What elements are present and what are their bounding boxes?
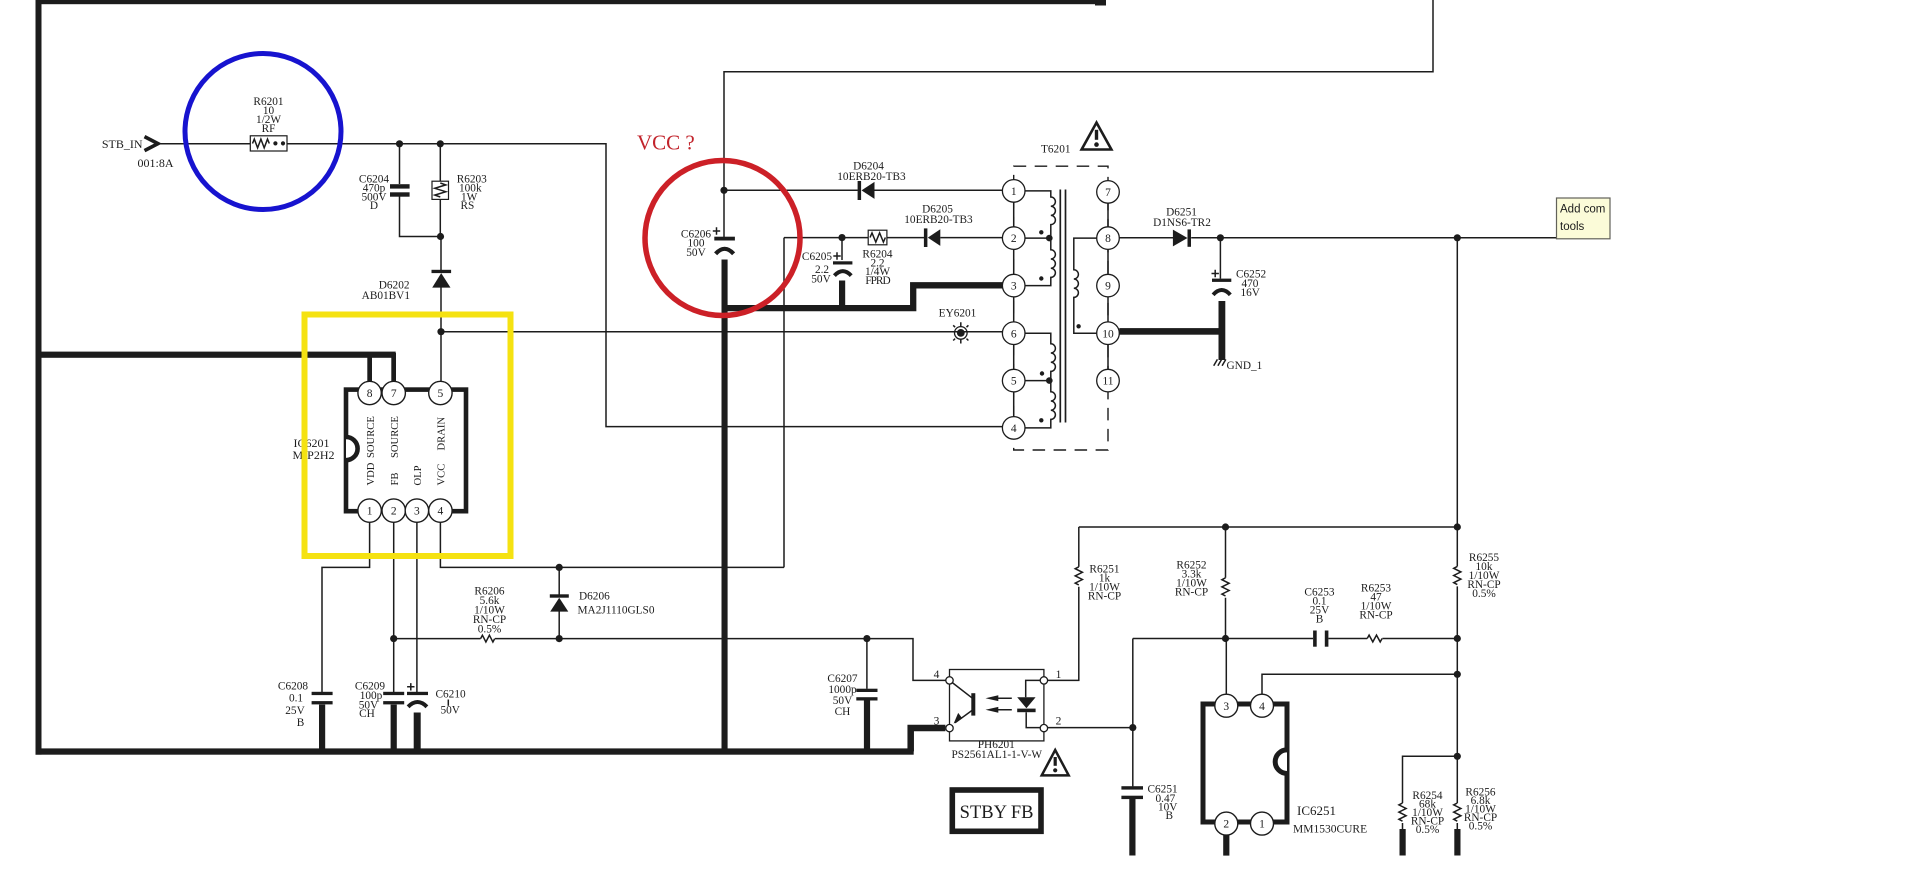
svg-text:1: 1	[1259, 819, 1265, 831]
resistor R6256 (6.8k zigzag)	[1454, 803, 1461, 821]
svg-text:FPRD: FPRD	[865, 275, 890, 287]
svg-text:DRAIN: DRAIN	[437, 417, 448, 451]
transformer tap pin 2	[1024, 237, 1051, 239]
capacitor C6207 (1000p 50V)	[856, 689, 877, 701]
svg-text:8: 8	[1105, 233, 1111, 245]
svg-text:50V: 50V	[686, 247, 706, 259]
wire: branch to R6203	[439, 144, 441, 181]
diode D6205 (10ERB20-TB3)	[924, 228, 940, 247]
resistor R6251 (1k zigzag)	[1075, 567, 1082, 585]
wire: thick wire T6201 pin 10 to C6252 ground stub	[1119, 328, 1222, 335]
svg-text:IC6251: IC6251	[1297, 803, 1336, 818]
capacitor C6253 (0.1 25V B series)	[1313, 631, 1328, 647]
svg-text:9: 9	[1105, 281, 1111, 293]
wire: IC6251 pin 3 lead up to rail	[1225, 639, 1227, 695]
diode D6251 (D1NS6-TR2)	[1173, 229, 1191, 246]
svg-text:1: 1	[1056, 669, 1062, 681]
transformer T6201 right pin column line	[1107, 192, 1109, 381]
warning triangle near T6201	[1082, 123, 1112, 150]
wire: C6207 top lead	[866, 639, 868, 689]
capacitor C6205 (2.2 50V, polarized)	[833, 252, 852, 275]
pin 7 of T6201	[1097, 181, 1120, 204]
junction node R6203 top	[437, 140, 444, 147]
annotation: blue circle around R6201	[185, 54, 341, 210]
wire: thick step from ground bus up to PH6201 pin 3	[911, 728, 946, 751]
wire: top-right thin wire from VCC node up and across	[724, 0, 1433, 190]
svg-text:MM1530CURE: MM1530CURE	[1293, 824, 1367, 836]
capacitor C6209 (100p 50V CH)	[383, 692, 404, 705]
wire: R6203 bottom to node	[439, 199, 441, 236]
svg-text:0.5%: 0.5%	[1469, 821, 1493, 833]
lead line mark for C6210 label	[447, 700, 449, 706]
diode D6204 (10ERB20-TB3)	[858, 181, 875, 200]
wire: thick stub below R6254	[1400, 829, 1406, 856]
wire: C6252 branch	[1219, 238, 1221, 279]
wire: IC6201 VCC (pin4) to lower rail to D6206 and T pin 2 drop	[440, 522, 784, 567]
annotation: sticky note "Add com tools"	[1557, 198, 1611, 239]
transformer tap pin 5	[1024, 380, 1051, 382]
svg-text:3: 3	[934, 716, 940, 728]
resistor R6203 (boxed, 100k 1W RS)	[432, 181, 449, 199]
IC IC6201 MIP2H2 body	[346, 390, 466, 512]
junction node C6252 top	[1217, 234, 1224, 241]
pin 6 of T6201	[1002, 322, 1025, 345]
pin 3 of IC6251	[1215, 694, 1238, 717]
polarity dot secondary winding	[1076, 324, 1080, 328]
transformer winding pin2-pin3	[1024, 238, 1055, 286]
optocoupler PH6201 PS2561AL1-1-V-W	[946, 670, 1048, 741]
wire: T6201 pin 2 row with R6204 and D6205	[784, 237, 1003, 239]
svg-text:RN-CP: RN-CP	[1359, 610, 1392, 622]
wire: IC6251 pin 4 lead and rail y=674.3	[1262, 674, 1457, 694]
wire: R6251 top lead	[1078, 527, 1080, 567]
svg-text:Add com: Add com	[1560, 204, 1605, 216]
svg-text:C6208: C6208	[278, 681, 308, 693]
svg-text:6: 6	[1011, 328, 1017, 340]
pin 1 of T6201	[1002, 180, 1025, 203]
svg-text:3: 3	[1011, 281, 1017, 293]
svg-text:4: 4	[438, 506, 444, 518]
wire: thick stub below R6256	[1454, 829, 1460, 856]
svg-text:RF: RF	[262, 123, 276, 135]
wire: thick stub below C6205	[839, 281, 845, 312]
svg-text:EY6201: EY6201	[939, 308, 977, 320]
svg-text:7: 7	[391, 388, 397, 400]
svg-text:D1NS6-TR2: D1NS6-TR2	[1153, 217, 1211, 229]
svg-text:8: 8	[367, 388, 373, 400]
wire: D6206 bottom lead	[558, 612, 560, 639]
junction node DRAIN / EY6201 row	[437, 328, 444, 335]
junction node right bus top	[1454, 234, 1461, 241]
svg-text:STBY FB: STBY FB	[960, 803, 1034, 823]
wire: schematic page border left (thick)	[36, 0, 42, 755]
diode D6206 (MA2J1110GLS0)	[550, 594, 569, 611]
pin 11 of T6201	[1097, 369, 1120, 392]
pin 1 of IC6251	[1251, 812, 1274, 835]
annotation: yellow rectangle around IC6201	[305, 315, 511, 557]
svg-text:4: 4	[934, 669, 940, 681]
wire: right vertical bus with R6255 and R6256	[1456, 238, 1458, 830]
wire: C6251 top lead	[1132, 728, 1134, 787]
svg-text:CH: CH	[359, 708, 375, 720]
svg-text:11: 11	[1102, 376, 1113, 388]
pin 3 of T6201	[1002, 274, 1025, 297]
svg-text:0.5%: 0.5%	[1416, 824, 1440, 836]
polarity dot winding 2	[1039, 276, 1043, 280]
svg-text:0.1: 0.1	[289, 693, 303, 705]
pin 4 of IC6251	[1251, 694, 1274, 717]
polarity dot winding 3	[1040, 371, 1044, 375]
svg-text:5: 5	[1011, 376, 1017, 388]
IC IC6251 MM1530CURE body	[1203, 704, 1287, 822]
wire: thick stub below C6251	[1129, 799, 1135, 856]
svg-text:C6210: C6210	[436, 689, 466, 701]
svg-text:2: 2	[391, 506, 397, 518]
junction node right bus / R6254 branch	[1454, 753, 1461, 760]
wire: D6202 to junction to IC6201 pin 5 (DRAIN)	[440, 288, 442, 382]
capacitor C6210 (50V, polarized)	[407, 683, 428, 707]
pin 4 of IC6201	[429, 499, 452, 522]
wire: thick stub below C6208	[319, 705, 325, 750]
svg-text:B: B	[1166, 810, 1174, 822]
capacitor C6251 (0.47 10V B)	[1121, 786, 1143, 799]
wire: thick stub below IC6251 pin 2	[1223, 835, 1229, 856]
transformer T6201 left pin column line	[1013, 191, 1015, 428]
pin 8 of T6201	[1097, 227, 1120, 250]
svg-text:AB01BV1: AB01BV1	[362, 290, 410, 302]
svg-text:RN-CP: RN-CP	[1088, 591, 1121, 603]
pin 5 of IC6201	[429, 381, 452, 404]
wire: riser bus to IC6201 pin 8	[367, 353, 372, 382]
junction: winding tap pin 2	[1046, 235, 1053, 242]
annotation: red circle around C6206	[645, 161, 800, 316]
wire: thick stub below C6210	[414, 713, 421, 750]
capacitor C6208 (0.1 25V B)	[312, 692, 333, 705]
wire: C6205 branch	[841, 238, 843, 260]
wire: branch to R6254	[1403, 756, 1458, 803]
resistor R6204 (boxed, 2.2 1/4W)	[868, 230, 887, 245]
junction node D6206 bottom	[556, 635, 563, 642]
transformer winding pin6-pin5	[1024, 333, 1055, 380]
ground GND_1 hatch symbol	[1214, 359, 1226, 365]
spark gap EY6201	[953, 322, 968, 343]
wire: R6251 bottom lead to PH6201 pin 1	[1047, 587, 1078, 681]
svg-text:4: 4	[1011, 423, 1017, 435]
wire: STB_IN node R6201 to corner to T6201 pin 4	[158, 144, 1003, 427]
wire: EY6201 row from DRAIN node to T6201 pin 6	[441, 331, 1003, 333]
STBY FB label box	[952, 790, 1041, 831]
svg-text:CH: CH	[835, 706, 851, 718]
capacitor C6206 (100 50V, polarized)	[713, 227, 735, 254]
transformer winding pin5-pin4	[1024, 381, 1055, 428]
svg-text:STB_IN: STB_IN	[102, 137, 143, 151]
wire: C6204 bottom jog to R6203 bottom node	[400, 195, 441, 237]
wire: thick stub below C6206 down to ground bus	[722, 260, 728, 752]
svg-text:GND_1: GND_1	[1227, 360, 1263, 372]
junction node R6252 bottom rail	[1222, 635, 1229, 642]
polarity dot winding 4	[1039, 418, 1043, 422]
svg-text:001:8A: 001:8A	[138, 156, 174, 170]
junction node right bus / upper rail	[1454, 523, 1461, 530]
pin 1 of IC6201	[358, 499, 381, 522]
svg-text:RS: RS	[461, 200, 475, 212]
junction node right bus / IC6251 pin4 rail	[1454, 671, 1461, 678]
pin 2 of T6201	[1002, 227, 1025, 250]
svg-text:MA2J1110GLS0: MA2J1110GLS0	[578, 605, 655, 617]
wire: riser bus to IC6201 pin 7	[391, 353, 396, 382]
pin 7 of IC6201	[382, 381, 405, 404]
resistor R6201 (boxed fusible, 10 1/2W RF)	[250, 136, 287, 151]
junction node R6252 top	[1222, 523, 1229, 530]
svg-text:PS2561AL1-1-V-W: PS2561AL1-1-V-W	[952, 749, 1043, 761]
wire: thick stub below C6207	[864, 700, 870, 749]
junction node right bus / middle rail	[1454, 635, 1461, 642]
junction node C6204 top	[396, 140, 403, 147]
wire: VCC node down to C6206	[723, 190, 725, 237]
svg-text:B: B	[1316, 614, 1324, 626]
svg-text:tools: tools	[1560, 221, 1585, 233]
svg-text:D: D	[370, 200, 378, 212]
svg-text:2: 2	[1056, 716, 1062, 728]
svg-text:4: 4	[1259, 701, 1265, 713]
wire: T6201 pin 2 down to VCC/FB lower rail	[783, 238, 785, 568]
svg-text:5: 5	[438, 388, 444, 400]
pin 4 of T6201	[1002, 417, 1025, 440]
svg-text:3: 3	[414, 506, 420, 518]
svg-text:D6206: D6206	[579, 591, 610, 603]
wire: D6206 top lead	[558, 567, 560, 594]
junction node D6206 top	[556, 564, 563, 571]
transformer secondary winding pin8-pin10	[1074, 238, 1098, 333]
junction node R6203/C6204 bottom	[437, 233, 444, 240]
wire: R6252 leads	[1225, 527, 1227, 639]
svg-text:50V: 50V	[811, 274, 831, 286]
pin 10 of T6201	[1097, 322, 1120, 345]
pin 2 of IC6251	[1215, 812, 1238, 835]
svg-text:1: 1	[1011, 186, 1017, 198]
pin 8 of IC6201	[358, 381, 381, 404]
svg-text:VCC: VCC	[437, 464, 448, 486]
wire: branch to C6204	[399, 144, 401, 184]
svg-text:16V: 16V	[1241, 287, 1261, 299]
junction node C6207 top	[863, 635, 870, 642]
svg-text:3: 3	[1223, 701, 1229, 713]
svg-text:2: 2	[1011, 233, 1017, 245]
resistor R6254 (68k zigzag)	[1399, 803, 1406, 821]
svg-text:MIP2H2: MIP2H2	[293, 448, 335, 462]
input arrow STB_IN	[145, 137, 159, 151]
svg-text:SOURCE: SOURCE	[390, 416, 401, 458]
wire: middle feedback rail y=638.5 with C6253 and R6253	[1133, 638, 1458, 640]
svg-text:SOURCE: SOURCE	[366, 416, 377, 458]
wire: node to D6202 anode	[440, 237, 442, 271]
wire: R6254 lower lead	[1402, 823, 1404, 830]
pin 2 of IC6201	[382, 499, 405, 522]
svg-text:VCC ?: VCC ?	[637, 131, 695, 155]
wire: FB rail y=638.6 with R6206 to C6207 and PH6201 pin 4	[394, 639, 946, 681]
resistor R6206 (5.6k zigzag)	[481, 635, 495, 642]
svg-text:0.5%: 0.5%	[478, 624, 502, 636]
resistor R6255 (10k zigzag)	[1454, 566, 1461, 584]
wire: thick bus to IC6201 pins 8/7	[36, 352, 396, 358]
svg-text:FB: FB	[390, 473, 401, 486]
svg-text:25V: 25V	[285, 705, 305, 717]
wire: IC6201 FB (pin2) down through node to C6209	[393, 522, 395, 692]
wire: T6201 pin 8 row through D6251 to right edge	[1119, 237, 1609, 239]
wire: ground bus bottom (thick)	[36, 748, 914, 754]
svg-text:10: 10	[1102, 328, 1114, 340]
svg-text:RN-CP: RN-CP	[1175, 587, 1208, 599]
junction: winding tap pin 5	[1046, 377, 1053, 384]
wire: PH6201 pin 2 row to C6251 node	[1047, 727, 1132, 729]
svg-text:1: 1	[367, 506, 373, 518]
capacitor C6204 (470p 500V)	[390, 184, 410, 197]
junction node C6205 top	[838, 234, 845, 241]
transformer winding pin1-pin2	[1024, 191, 1055, 238]
warning triangle near PH6201	[1042, 750, 1069, 775]
wire: rail down to PH6201 pin 2 node	[1132, 639, 1134, 728]
svg-text:C6205: C6205	[802, 251, 832, 263]
pin 3 of IC6201	[405, 499, 428, 522]
resistor R6252 (3.3k zigzag)	[1222, 578, 1229, 596]
svg-text:2: 2	[1223, 819, 1229, 831]
wire: upper feedback rail y=527	[1079, 526, 1458, 528]
pin 9 of T6201	[1097, 274, 1120, 297]
svg-text:B: B	[297, 717, 305, 729]
pin 5 of T6201	[1002, 369, 1025, 392]
capacitor C6252 (470 16V, polarized)	[1212, 270, 1232, 295]
junction node PH6201 pin 2 / C6251	[1129, 724, 1136, 731]
svg-text:10ERB20-TB3: 10ERB20-TB3	[904, 214, 973, 226]
junction node VCC top at C6206	[720, 187, 727, 194]
wire: IC6201 VDD (pin1) jog to C6208	[322, 522, 370, 692]
svg-text:7: 7	[1105, 187, 1111, 199]
wire: thick stub below C6209	[391, 705, 397, 750]
wire: thick ground stub below C6252 to GND_1	[1219, 301, 1226, 360]
wire: thick VCC rail from T6201 pin 3 (steps)	[725, 285, 1003, 308]
svg-text:VDD: VDD	[366, 462, 377, 485]
svg-text:OLP: OLP	[413, 465, 424, 485]
junction node FB rail left	[390, 635, 397, 642]
svg-text:0.5%: 0.5%	[1472, 588, 1496, 600]
transformer T6201 core lines	[1060, 190, 1065, 423]
svg-text:10ERB20-TB3: 10ERB20-TB3	[837, 171, 906, 183]
wire: VCC row to D6204 to T6201 pin 1	[724, 189, 1003, 191]
wire: IC6201 OLP (pin3) down to C6210	[416, 522, 418, 692]
wire: schematic page border top (thick)	[36, 0, 1100, 4]
transformer T6201 dashed outline	[1014, 166, 1108, 450]
diode D6202 (AB01BV1)	[432, 270, 452, 288]
resistor R6253 (47 zigzag)	[1367, 635, 1382, 642]
polarity dot winding 1	[1039, 230, 1043, 234]
wire: top border end nub	[1095, 0, 1106, 6]
svg-text:T6201: T6201	[1041, 144, 1071, 156]
svg-text:50V: 50V	[441, 705, 461, 717]
